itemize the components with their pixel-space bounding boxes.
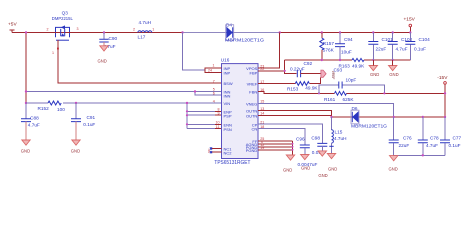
svg-text:GND: GND — [389, 72, 398, 77]
inductor L17 — [133, 20, 154, 39]
+15V power symbol — [404, 17, 416, 34]
capacitor C104 0.1uF — [405, 33, 430, 61]
svg-text:L15: L15 — [335, 130, 343, 135]
svg-text:625K: 625K — [343, 97, 355, 102]
chip left pin numbers — [208, 64, 220, 129]
svg-text:GND: GND — [328, 167, 337, 172]
svg-text:4.7uH: 4.7uH — [334, 136, 347, 141]
svg-text:MBRM120ET1G: MBRM120ET1G — [225, 38, 264, 43]
svg-text:U16: U16 — [221, 58, 230, 63]
wire VNEG to output node — [258, 103, 394, 117]
svg-text:C88: C88 — [30, 115, 39, 120]
svg-text:7: 7 — [213, 79, 215, 83]
svg-text:3: 3 — [77, 27, 79, 31]
NC no-connect marks — [207, 147, 212, 153]
capacitor C101 22uF — [368, 31, 393, 60]
node rail-VPOS junction — [279, 31, 281, 33]
svg-text:TPS65131RGET: TPS65131RGET — [214, 160, 250, 166]
svg-text:1: 1 — [213, 64, 215, 68]
svg-text:C96: C96 — [296, 136, 305, 141]
svg-text:-15V: -15V — [437, 75, 448, 81]
svg-text:10uF: 10uF — [341, 50, 352, 55]
resistor R161 625K — [324, 91, 445, 102]
ground C98 — [318, 151, 328, 178]
port arrow VREF — [321, 70, 335, 79]
svg-text:22uF: 22uF — [399, 143, 410, 148]
wire INN line — [26, 91, 222, 93]
svg-text:C77: C77 — [453, 136, 462, 141]
svg-text:R157: R157 — [323, 41, 335, 46]
wire OUTN pins to switch node — [258, 111, 332, 118]
wire bottom right ground rail — [394, 154, 445, 156]
wire CN to C96 — [258, 129, 305, 146]
wire INN tie — [195, 92, 222, 96]
svg-text:GND: GND — [98, 59, 107, 64]
ground C96 — [301, 155, 311, 171]
node rail-INP junction — [181, 31, 183, 33]
svg-text:PGND: PGND — [246, 148, 258, 153]
capacitor C94 10uF — [335, 31, 353, 60]
wire top rail mid segment — [183, 32, 280, 34]
svg-text:L17: L17 — [138, 34, 146, 39]
wire INP bracket — [205, 68, 215, 73]
-15V power symbol — [437, 75, 448, 117]
chip left pin stubs — [211, 68, 222, 152]
wire AGND PGND tie bus — [258, 141, 293, 155]
svg-text:0.1uF: 0.1uF — [449, 143, 461, 148]
wire top rail right segment — [280, 32, 411, 34]
chip left pin names — [224, 66, 233, 155]
svg-text:CN: CN — [252, 127, 258, 132]
svg-text:INN: INN — [224, 93, 231, 98]
inductor L15 4.7uH vertical — [329, 117, 346, 154]
svg-text:GND: GND — [318, 173, 327, 178]
svg-text:10pF: 10pF — [346, 78, 357, 83]
svg-text:4: 4 — [213, 99, 215, 103]
svg-text:C76: C76 — [403, 136, 412, 141]
svg-text:4.7uF: 4.7uF — [426, 143, 438, 148]
wire VREF pin line — [258, 83, 295, 85]
svg-text:4.7uH: 4.7uH — [139, 20, 152, 25]
svg-text:INP: INP — [224, 71, 231, 76]
svg-text:49.9K: 49.9K — [352, 64, 365, 69]
svg-text:VIN: VIN — [224, 101, 231, 106]
svg-text:+15V: +15V — [404, 17, 416, 23]
svg-text:MBRM120ET1G: MBRM120ET1G — [351, 123, 387, 128]
svg-text:100: 100 — [57, 107, 65, 112]
ground L15 — [327, 154, 337, 172]
svg-text:C78: C78 — [430, 136, 439, 141]
svg-text:GND: GND — [283, 167, 292, 172]
ground under C101 — [369, 60, 379, 77]
svg-text:GND: GND — [370, 72, 379, 77]
svg-text:NC2: NC2 — [224, 150, 233, 155]
capacitor C78 4.7uF — [418, 117, 439, 155]
transistor Q3 DMP2215L — [47, 11, 79, 41]
svg-text:11: 11 — [216, 125, 220, 129]
svg-text:C104: C104 — [419, 37, 431, 42]
svg-text:R153: R153 — [287, 86, 299, 91]
svg-text:VREF: VREF — [247, 82, 258, 87]
svg-text:24: 24 — [208, 68, 212, 72]
capacitor C88 4.7uF — [21, 115, 40, 140]
svg-text:FBP: FBP — [250, 70, 258, 75]
capacitor C98 0.01uF — [311, 135, 327, 155]
capacitor C90 — [99, 31, 117, 49]
resistor R163 49.9K — [339, 58, 411, 68]
capacitor C76 22uF — [389, 117, 412, 155]
ground under C102 — [389, 60, 399, 77]
svg-text:C93: C93 — [334, 68, 343, 73]
svg-text:4.7uF: 4.7uF — [28, 123, 40, 128]
wire OUTN output line — [332, 116, 446, 118]
svg-text:C90: C90 — [109, 36, 118, 41]
svg-text:Q3: Q3 — [62, 11, 69, 16]
ground C91 — [71, 140, 80, 154]
svg-text:GND: GND — [389, 167, 398, 172]
diode D4 MBRM120ET1G — [225, 22, 264, 42]
svg-text:C98: C98 — [311, 135, 320, 140]
svg-text:R161: R161 — [324, 97, 336, 102]
svg-text:DMP2215L: DMP2215L — [52, 16, 73, 21]
wire FBP divider line y60 — [285, 59, 352, 61]
svg-text:6: 6 — [213, 91, 215, 95]
ground bottom right — [389, 156, 398, 172]
wire vertical left bus x26 — [25, 33, 27, 104]
svg-text:FBN: FBN — [249, 90, 257, 95]
svg-text:2: 2 — [47, 28, 49, 32]
wire top rail — [12, 32, 183, 34]
op-amp U16 TPS65131RGET chip body — [214, 58, 258, 166]
svg-text:576K: 576K — [323, 47, 335, 52]
svg-text:C94: C94 — [344, 37, 353, 42]
wire CP to C98 — [258, 124, 322, 143]
svg-text:PSP: PSP — [224, 113, 232, 118]
wire FBN line — [258, 92, 335, 94]
resistor R152 100 — [25, 101, 222, 112]
+5V power symbol — [8, 22, 17, 33]
svg-text:OUTN: OUTN — [246, 114, 257, 119]
svg-text:9: 9 — [218, 112, 220, 116]
wire VPOS to rail — [258, 33, 280, 69]
svg-text:C91: C91 — [87, 115, 96, 120]
svg-text:49.9K: 49.9K — [305, 85, 318, 90]
resistor R157 576K — [320, 31, 335, 60]
capacitor C77 0.1uF — [440, 117, 461, 155]
svg-text:0.1uF: 0.1uF — [414, 46, 426, 51]
svg-text:PSN: PSN — [224, 127, 232, 132]
capacitor C96 0.0047uF — [296, 136, 317, 167]
svg-text:GND: GND — [71, 149, 80, 154]
node gate dot — [57, 48, 59, 50]
wire EN bus ladder — [187, 103, 215, 129]
ground C90 — [98, 46, 109, 64]
capacitor C91 0.1uF — [71, 102, 95, 140]
svg-text:+5V: +5V — [8, 22, 17, 28]
svg-text:BSW: BSW — [224, 81, 233, 86]
wire FBP to divider node — [258, 60, 297, 74]
resistor R153 49.9K — [287, 77, 321, 91]
svg-text:22uF: 22uF — [376, 46, 387, 51]
svg-text:VNEG: VNEG — [246, 102, 257, 107]
chip right pin names — [246, 66, 258, 153]
svg-text:R152: R152 — [38, 106, 50, 111]
svg-text:2: 2 — [133, 27, 135, 31]
svg-text:1: 1 — [52, 51, 54, 55]
ground C88 — [21, 140, 30, 154]
capacitor C102 4.7uF — [388, 31, 413, 60]
wire Q3 gate to BSW pin — [58, 40, 222, 83]
svg-text:GND: GND — [21, 149, 30, 154]
svg-text:0.1uF: 0.1uF — [83, 122, 95, 127]
node rail-x26 junction — [25, 31, 27, 33]
diode D6 MBRM120ET1G — [351, 106, 387, 129]
capacitor C93 10pF parallel branch — [319, 68, 386, 95]
svg-text:GND: GND — [301, 166, 310, 171]
capacitor C92 0.22uF — [290, 61, 321, 77]
svg-text:4.7uF: 4.7uF — [396, 46, 408, 51]
svg-text:C92: C92 — [304, 61, 313, 66]
chip right pin numbers — [260, 64, 264, 150]
svg-text:1: 1 — [152, 27, 154, 31]
wire INP feed blue — [183, 33, 206, 71]
ground AGND — [283, 155, 295, 172]
